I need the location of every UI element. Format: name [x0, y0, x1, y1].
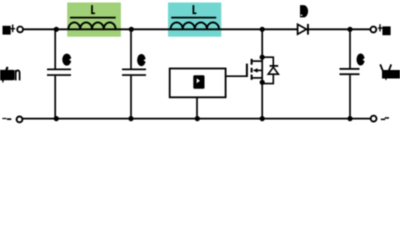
node drain junction: [260, 55, 265, 60]
terminal top-right plus: [378, 24, 382, 31]
inductor L1 coil: [68, 22, 115, 29]
wire top rail: [23, 28, 370, 30]
controller gate wire: [226, 75, 247, 77]
terminal top-left circle: [17, 27, 23, 33]
terminal bottom-left circle: [17, 117, 23, 123]
terminal top-right circle: [371, 27, 377, 33]
body diode cathode bar: [270, 65, 279, 67]
inductor L2 label L: [193, 5, 196, 13]
transistor Q1 gate bar: [246, 64, 248, 77]
terminal bottom-left dashes: [2, 118, 6, 119]
capacitor C1 plates: [47, 69, 71, 71]
inductor L1 highlight box: [67, 3, 121, 37]
diode D triangle: [298, 24, 307, 34]
body diode triangle: [268, 67, 278, 74]
transistor Q1 bulk arrow: [257, 69, 263, 71]
capacitor C2 plates: [122, 69, 146, 71]
inductor L1 bar: [70, 17, 116, 19]
inductor L2 coil: [171, 22, 219, 29]
controller label blob: [193, 75, 204, 89]
wire drain-source vertical: [261, 29, 263, 118]
controller bottom pin wire: [196, 97, 198, 118]
body diode wires: [262, 57, 273, 83]
label Vin: [0, 67, 20, 81]
terminal top-left plus: [11, 25, 15, 33]
capacitor C3 label C: [357, 53, 366, 65]
terminal top-right square: [382, 26, 390, 35]
terminal bottom-right step mark: [381, 119, 385, 121]
inductor L1 label L: [92, 5, 95, 13]
label Vout: [380, 64, 400, 78]
controller box U1: [170, 69, 226, 98]
capacitor C3 wires: [349, 29, 351, 68]
wire bottom rail: [23, 118, 370, 120]
inductor L2 bar: [171, 17, 216, 19]
capacitor C1 wires: [54, 29, 56, 68]
diode D label: [300, 5, 308, 17]
transistor Q1 channel segments: [251, 59, 253, 65]
node source junction: [260, 80, 265, 85]
capacitor C3 plates: [340, 68, 360, 70]
inductor L2 highlight box: [168, 3, 221, 37]
node dots top rail: [54, 27, 59, 32]
capacitor C2 label C: [137, 54, 146, 66]
capacitor C1 label C: [62, 53, 72, 65]
transistor Q1 source lead: [252, 77, 263, 79]
terminal top-left square: [3, 26, 11, 35]
capacitor C2 wires: [130, 29, 132, 68]
terminal bottom-right circle: [371, 116, 377, 122]
diode D cathode bar: [307, 24, 309, 35]
transistor Q1 drain lead: [252, 60, 263, 62]
node dots bottom rail: [54, 116, 59, 121]
